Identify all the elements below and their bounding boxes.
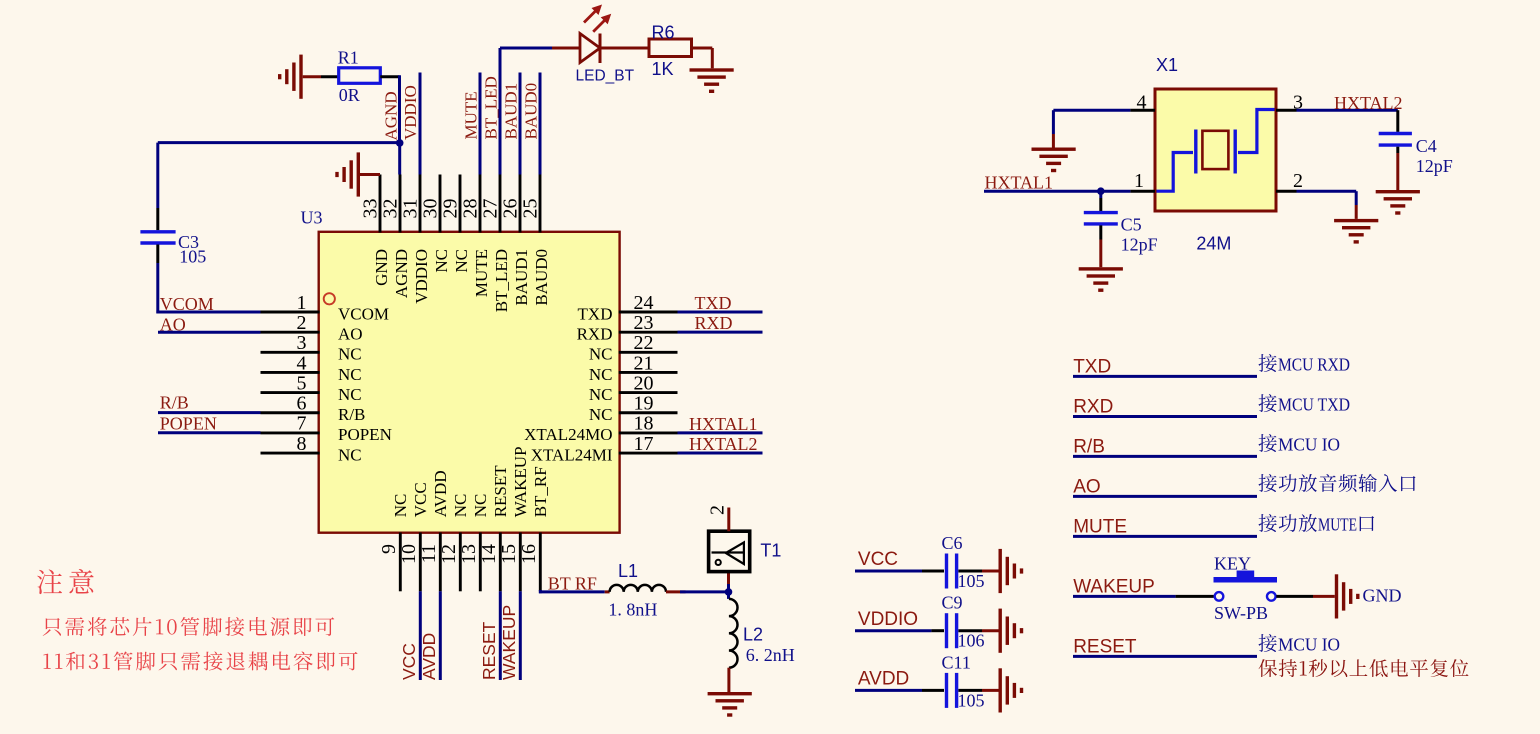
svg-text:HXTAL1: HXTAL1 bbox=[689, 414, 758, 434]
svg-text:NC: NC bbox=[452, 249, 471, 273]
svg-text:BT_RF: BT_RF bbox=[531, 466, 550, 517]
svg-text:25: 25 bbox=[520, 199, 542, 219]
svg-text:14: 14 bbox=[478, 544, 500, 564]
svg-text:C4: C4 bbox=[1416, 136, 1437, 156]
svg-text:VCOM: VCOM bbox=[338, 304, 389, 323]
svg-text:105: 105 bbox=[179, 247, 206, 267]
svg-text:RESET: RESET bbox=[1073, 637, 1137, 658]
svg-text:9: 9 bbox=[378, 544, 400, 554]
svg-text:4: 4 bbox=[297, 352, 307, 374]
svg-text:VCOM: VCOM bbox=[160, 294, 214, 314]
svg-text:MCU IO: MCU IO bbox=[1278, 434, 1340, 454]
svg-text:AVDD: AVDD bbox=[419, 633, 439, 680]
svg-text:C11: C11 bbox=[942, 652, 971, 672]
svg-text:AVDD: AVDD bbox=[431, 470, 450, 517]
svg-text:22: 22 bbox=[634, 332, 654, 354]
svg-text:106: 106 bbox=[958, 631, 985, 651]
svg-text:TXD: TXD bbox=[578, 304, 613, 323]
svg-text:MCU TXD: MCU TXD bbox=[1278, 395, 1350, 415]
svg-text:VDDIO: VDDIO bbox=[858, 609, 918, 630]
svg-text:BAUD0: BAUD0 bbox=[532, 249, 551, 306]
svg-text:2: 2 bbox=[1293, 170, 1303, 192]
svg-text:2: 2 bbox=[297, 312, 307, 334]
svg-text:16: 16 bbox=[518, 544, 540, 564]
svg-text:POPEN: POPEN bbox=[160, 413, 217, 433]
svg-text:NC: NC bbox=[338, 445, 362, 464]
svg-text:WAKEUP: WAKEUP bbox=[1073, 577, 1155, 598]
svg-text:VCC: VCC bbox=[411, 482, 430, 517]
svg-text:MCU RXD: MCU RXD bbox=[1278, 354, 1350, 374]
svg-text:7: 7 bbox=[297, 413, 307, 435]
svg-text:TXD: TXD bbox=[695, 293, 732, 313]
svg-text:3: 3 bbox=[297, 332, 307, 354]
svg-text:11: 11 bbox=[418, 544, 440, 563]
svg-text:C6: C6 bbox=[942, 533, 963, 553]
svg-text:27: 27 bbox=[480, 199, 502, 219]
svg-text:RXD: RXD bbox=[577, 324, 613, 343]
svg-text:1K: 1K bbox=[652, 59, 674, 79]
svg-text:MUTE: MUTE bbox=[461, 91, 480, 139]
svg-text:NC: NC bbox=[451, 494, 470, 518]
svg-text:13: 13 bbox=[458, 544, 480, 564]
svg-text:KEY: KEY bbox=[1214, 554, 1251, 574]
svg-text:HXTAL1: HXTAL1 bbox=[985, 172, 1054, 192]
svg-text:R/B: R/B bbox=[160, 393, 189, 413]
svg-text:AGND: AGND bbox=[392, 249, 411, 298]
svg-text:MUTE: MUTE bbox=[1318, 514, 1357, 534]
svg-text:NC: NC bbox=[589, 365, 613, 384]
svg-text:15: 15 bbox=[498, 544, 520, 564]
svg-text:1: 1 bbox=[1134, 170, 1144, 192]
svg-text:RXD: RXD bbox=[1073, 397, 1113, 418]
svg-text:GND: GND bbox=[1363, 586, 1402, 606]
svg-text:R/B: R/B bbox=[338, 405, 365, 424]
svg-text:19: 19 bbox=[634, 393, 654, 415]
svg-text:WAKEUP: WAKEUP bbox=[499, 605, 519, 680]
svg-text:18: 18 bbox=[634, 413, 654, 435]
svg-text:AVDD: AVDD bbox=[858, 669, 909, 690]
svg-text:AGND: AGND bbox=[381, 91, 400, 140]
svg-text:MCU IO: MCU IO bbox=[1278, 634, 1340, 654]
svg-text:VDDIO: VDDIO bbox=[412, 249, 431, 304]
svg-text:HXTAL2: HXTAL2 bbox=[1334, 93, 1403, 113]
svg-text:30: 30 bbox=[420, 199, 442, 219]
svg-text:24: 24 bbox=[634, 292, 654, 314]
svg-text:23: 23 bbox=[634, 312, 654, 334]
svg-text:NC: NC bbox=[432, 249, 451, 273]
svg-text:VCC: VCC bbox=[399, 643, 419, 680]
svg-text:HXTAL2: HXTAL2 bbox=[689, 434, 758, 454]
svg-text:29: 29 bbox=[440, 199, 462, 219]
svg-text:XTAL24MO: XTAL24MO bbox=[524, 425, 612, 444]
svg-text:1: 1 bbox=[297, 292, 307, 314]
svg-text:2: 2 bbox=[707, 505, 729, 515]
svg-text:31: 31 bbox=[400, 199, 422, 219]
svg-text:BT RF: BT RF bbox=[548, 574, 597, 594]
svg-text:NC: NC bbox=[338, 365, 362, 384]
svg-text:NC: NC bbox=[338, 385, 362, 404]
svg-text:5: 5 bbox=[297, 372, 307, 394]
svg-text:24M: 24M bbox=[1196, 234, 1231, 254]
svg-text:BT_LED: BT_LED bbox=[481, 76, 500, 139]
svg-text:L1: L1 bbox=[618, 561, 638, 581]
svg-text:8: 8 bbox=[297, 433, 307, 455]
svg-text:NC: NC bbox=[471, 494, 490, 518]
svg-text:12pF: 12pF bbox=[1416, 156, 1453, 176]
svg-text:20: 20 bbox=[634, 372, 654, 394]
svg-text:TXD: TXD bbox=[1073, 357, 1111, 378]
svg-text:33: 33 bbox=[360, 199, 382, 219]
svg-text:105: 105 bbox=[958, 690, 985, 710]
svg-text:12pF: 12pF bbox=[1121, 234, 1158, 254]
svg-text:MUTE: MUTE bbox=[472, 249, 491, 297]
svg-text:NC: NC bbox=[589, 345, 613, 364]
svg-text:VDDIO: VDDIO bbox=[401, 85, 420, 140]
svg-text:X1: X1 bbox=[1156, 55, 1178, 75]
svg-text:GND: GND bbox=[372, 249, 391, 286]
svg-text:26: 26 bbox=[500, 199, 522, 219]
svg-text:AO: AO bbox=[160, 314, 186, 334]
svg-text:105: 105 bbox=[958, 571, 985, 591]
svg-text:21: 21 bbox=[634, 352, 654, 374]
svg-text:4: 4 bbox=[1137, 91, 1147, 113]
svg-text:NC: NC bbox=[338, 345, 362, 364]
svg-text:T1: T1 bbox=[760, 541, 781, 561]
svg-text:12: 12 bbox=[438, 544, 460, 564]
svg-text:VCC: VCC bbox=[858, 549, 898, 570]
svg-text:U3: U3 bbox=[301, 208, 323, 228]
svg-text:XTAL24MI: XTAL24MI bbox=[531, 445, 613, 464]
svg-text:32: 32 bbox=[380, 199, 402, 219]
svg-text:BAUD0: BAUD0 bbox=[521, 83, 540, 140]
svg-text:R1: R1 bbox=[338, 48, 359, 68]
svg-text:MUTE: MUTE bbox=[1073, 517, 1127, 538]
svg-text:R/B: R/B bbox=[1073, 437, 1105, 458]
svg-text:0R: 0R bbox=[339, 85, 360, 105]
svg-text:L2: L2 bbox=[743, 625, 763, 645]
svg-text:C9: C9 bbox=[942, 593, 963, 613]
svg-text:6. 2nH: 6. 2nH bbox=[746, 645, 795, 665]
svg-text:AO: AO bbox=[338, 324, 363, 343]
svg-text:NC: NC bbox=[589, 385, 613, 404]
svg-text:17: 17 bbox=[634, 433, 654, 455]
svg-text:BT_LED: BT_LED bbox=[492, 249, 511, 312]
svg-text:RESET: RESET bbox=[491, 465, 510, 518]
svg-text:6: 6 bbox=[297, 393, 307, 415]
svg-text:WAKEUP: WAKEUP bbox=[511, 446, 530, 517]
svg-text:LED_BT: LED_BT bbox=[576, 68, 635, 85]
svg-text:NC: NC bbox=[589, 405, 613, 424]
svg-text:R6: R6 bbox=[652, 22, 675, 42]
svg-text:AO: AO bbox=[1073, 477, 1100, 498]
svg-text:RESET: RESET bbox=[479, 621, 499, 680]
svg-text:1. 8nH: 1. 8nH bbox=[608, 600, 657, 620]
svg-text:28: 28 bbox=[460, 199, 482, 219]
svg-text:BAUD1: BAUD1 bbox=[501, 83, 520, 140]
svg-text:10: 10 bbox=[398, 544, 420, 564]
svg-text:C5: C5 bbox=[1121, 215, 1142, 235]
svg-text:POPEN: POPEN bbox=[338, 425, 392, 444]
svg-text:RXD: RXD bbox=[695, 313, 733, 333]
svg-text:SW-PB: SW-PB bbox=[1214, 603, 1268, 623]
svg-text:BAUD1: BAUD1 bbox=[512, 249, 531, 306]
svg-text:NC: NC bbox=[391, 494, 410, 518]
